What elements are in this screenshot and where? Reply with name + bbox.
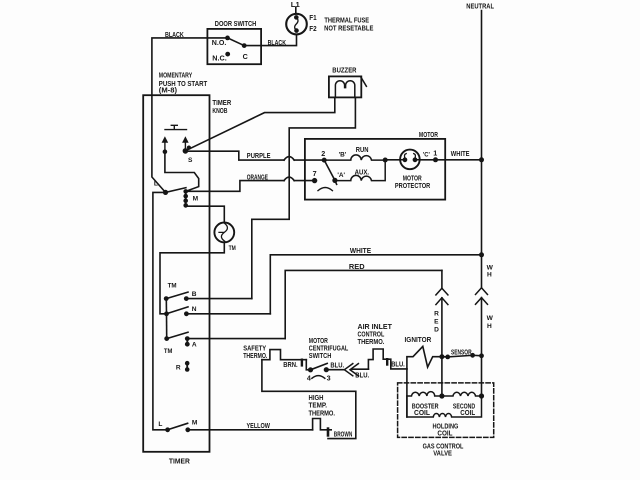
svg-text:E: E bbox=[434, 319, 439, 326]
svg-text:KNOB: KNOB bbox=[212, 106, 227, 115]
timer motor wave symbol bbox=[219, 224, 227, 242]
ignitor element zigzag bbox=[407, 346, 442, 369]
label W H (lower) bbox=[487, 315, 494, 330]
label R E D (vertical) bbox=[434, 311, 439, 334]
aux-side contact dot bbox=[332, 178, 337, 183]
wire: M bottom to timer motor TM bbox=[186, 206, 225, 222]
wire: N fixed to riser bbox=[186, 313, 270, 315]
sensor/neutral junction dot bbox=[479, 353, 484, 358]
plug connector bar (yellow/brown) bbox=[327, 429, 330, 436]
svg-text:S: S bbox=[188, 157, 193, 164]
svg-text:BROWN: BROWN bbox=[334, 430, 353, 439]
wire: TM bottom into timer to N moving contact bbox=[160, 242, 224, 313]
svg-text:L1: L1 bbox=[291, 0, 300, 9]
centrifugal switch arm bbox=[311, 363, 328, 369]
svg-text:3: 3 bbox=[327, 374, 331, 383]
timer contact B fixed dot bbox=[184, 296, 189, 301]
aux winding bbox=[335, 160, 385, 181]
label HIGH TEMP. THERMO. bbox=[309, 393, 336, 417]
svg-text:THERMO.: THERMO. bbox=[243, 351, 267, 360]
timer contact A moving dot bbox=[164, 336, 169, 341]
wire: blu from contact 3 bbox=[326, 369, 343, 371]
sensor element bbox=[448, 355, 473, 357]
svg-text:VALVE: VALVE bbox=[433, 449, 452, 458]
wire: white rail from N riser to neutral bbox=[270, 255, 481, 314]
svg-text:BLU.: BLU. bbox=[391, 359, 405, 368]
wire: drop to centrifugal switch contact 4 bbox=[306, 360, 310, 370]
svg-text:WHITE: WHITE bbox=[451, 149, 470, 158]
wire: blu to air inlet thermo bbox=[352, 368, 368, 370]
gas control valve dashed box bbox=[398, 383, 494, 438]
wire: A fixed to red riser bbox=[190, 338, 286, 340]
ignitor/red junction dot bbox=[439, 354, 444, 359]
svg-text:'B': 'B' bbox=[339, 151, 347, 158]
connector chevrons on red lead bbox=[436, 288, 448, 304]
svg-text:RUN: RUN bbox=[356, 145, 369, 154]
wire: red rail bbox=[285, 270, 442, 338]
wire: white lead into valve bbox=[481, 356, 483, 396]
buzzer striker flag bbox=[361, 77, 367, 87]
buzzer coil bbox=[335, 81, 354, 98]
wire: M stack connector bbox=[185, 191, 187, 205]
wire: timer knob pointer to buzzer feed bbox=[186, 97, 335, 150]
svg-text:ORANGE: ORANGE bbox=[247, 172, 268, 181]
motor protector bimetal marks bbox=[404, 154, 415, 157]
timer contact L bottom arm bbox=[168, 423, 188, 430]
svg-text:2: 2 bbox=[321, 149, 325, 158]
thermal fuse element S-curve bbox=[295, 17, 298, 30]
svg-text:MOTOR: MOTOR bbox=[419, 130, 439, 139]
wire: neutral vertical line bbox=[481, 11, 483, 255]
wire jump: orange over buzzer riser bbox=[284, 177, 294, 181]
motor box bbox=[305, 139, 445, 200]
connector chevrons on blu wire bbox=[344, 364, 358, 376]
door switch C terminal bbox=[242, 43, 247, 48]
junction dot on left arrow wire bbox=[163, 149, 168, 154]
svg-text:L: L bbox=[154, 180, 158, 187]
wire: yellow from timer M contact bbox=[188, 429, 313, 431]
label TIMER KNOB bbox=[212, 98, 231, 115]
wire: A fixed dots connector bbox=[186, 339, 188, 345]
svg-text:DOOR SWITCH: DOOR SWITCH bbox=[215, 19, 256, 28]
wire: B fixed to buzzer riser bbox=[186, 298, 252, 300]
label W H (upper) bbox=[487, 264, 494, 278]
timer motor TM circle bbox=[214, 223, 234, 243]
svg-text:YELLOW: YELLOW bbox=[247, 421, 271, 430]
timer contact L moving dot bbox=[163, 190, 168, 195]
label SAFETY THERMO. bbox=[243, 343, 267, 359]
svg-text:BUZZER: BUZZER bbox=[332, 65, 357, 74]
label BOOSTER COIL bbox=[412, 401, 440, 417]
plug connector bar (brn) bbox=[301, 360, 303, 366]
svg-text:'C': 'C' bbox=[423, 151, 430, 158]
svg-text:'A': 'A' bbox=[337, 172, 345, 179]
wire: protector to terminal 1 bbox=[420, 159, 436, 161]
label MOTOR PROTECTOR bbox=[395, 174, 431, 191]
thermal fuse F1/F2 circle bbox=[286, 14, 307, 35]
wire: motor output white to neutral bbox=[436, 159, 482, 161]
svg-text:SWITCH: SWITCH bbox=[309, 351, 332, 360]
label HOLDING COIL bbox=[433, 421, 459, 437]
wire: junction to motor protector bbox=[385, 159, 400, 161]
sensor right dot bbox=[470, 353, 475, 358]
timer contact A arm bbox=[167, 332, 188, 338]
svg-text:WHITE: WHITE bbox=[350, 246, 371, 255]
svg-text:W: W bbox=[487, 264, 494, 271]
svg-text:THERMO.: THERMO. bbox=[358, 337, 385, 346]
wire: red drop to connector bbox=[441, 270, 443, 288]
run winding bbox=[324, 155, 385, 160]
svg-text:NOT RESETABLE: NOT RESETABLE bbox=[324, 23, 373, 32]
safety thermostat bump bbox=[262, 350, 306, 360]
label GAS CONTROL VALVE bbox=[423, 442, 464, 458]
svg-text:M: M bbox=[192, 420, 198, 427]
timer contact M bottom fixed dot bbox=[185, 427, 190, 432]
plug connector bar (blu/ignitor) bbox=[386, 359, 388, 364]
svg-text:F2: F2 bbox=[309, 24, 316, 33]
svg-text:(M-8): (M-8) bbox=[159, 85, 178, 94]
thermal fuse top terminal dot bbox=[294, 15, 299, 20]
svg-text:M: M bbox=[193, 196, 199, 203]
svg-text:A: A bbox=[192, 341, 197, 348]
push-to-start actuator T bar bbox=[165, 125, 187, 129]
timer contact S dot bbox=[183, 148, 189, 154]
svg-text:BLACK: BLACK bbox=[268, 38, 287, 47]
svg-text:C: C bbox=[243, 52, 248, 61]
wire: orange from M contact to motor terminal 7 bbox=[188, 181, 284, 192]
junction dot on neutral line bbox=[479, 157, 484, 162]
svg-text:H: H bbox=[487, 272, 492, 279]
svg-text:BLU.: BLU. bbox=[355, 370, 369, 379]
wire: brown segment bbox=[262, 360, 356, 439]
junction dot white rail to neutral bbox=[479, 252, 484, 257]
wire: sensor to neutral lead bbox=[473, 354, 482, 357]
motor terminal 1 dot bbox=[433, 157, 438, 162]
svg-text:TM: TM bbox=[168, 283, 177, 290]
wire: blu lead into valve bbox=[406, 369, 408, 417]
svg-text:SENSOR: SENSOR bbox=[451, 347, 472, 356]
high temp thermostat bump bbox=[313, 419, 332, 430]
motor centrifugal actuator arc bbox=[318, 188, 332, 191]
sensor left dot bbox=[445, 355, 450, 360]
svg-text:COIL: COIL bbox=[437, 429, 453, 438]
booster coil bbox=[407, 392, 442, 396]
wire: purple from S to motor terminal 2 bbox=[185, 151, 284, 160]
wire: M fixed feed from push-start junction bbox=[165, 152, 199, 192]
centrifugal actuator arc 4-3 bbox=[312, 376, 325, 379]
timer contact R dots bbox=[185, 361, 190, 372]
motor centrifugal switch arm 2 to aux bbox=[324, 160, 336, 184]
motor terminal 7 bbox=[312, 178, 317, 183]
wire: neutral drop to connector bbox=[481, 255, 483, 288]
label MOTOR CENTRIFUGAL SWITCH bbox=[309, 336, 349, 360]
svg-text:BLACK: BLACK bbox=[165, 30, 184, 39]
door switch arm N.O. to C bbox=[228, 38, 245, 46]
svg-text:1: 1 bbox=[433, 149, 437, 158]
svg-text:TM: TM bbox=[229, 245, 237, 252]
wire jump: purple over buzzer riser bbox=[284, 157, 294, 161]
wire: red lead into valve bbox=[441, 357, 443, 396]
thermal fuse bottom terminal dot bbox=[294, 28, 299, 33]
svg-text:N.C.: N.C. bbox=[212, 54, 227, 63]
timer box outline bbox=[143, 95, 209, 452]
buzzer box bbox=[329, 76, 361, 97]
door switch N.C. terminal bbox=[225, 52, 230, 57]
holding coil on bottom rail bbox=[407, 396, 482, 417]
push-to-start right arrow bbox=[184, 140, 186, 148]
svg-text:PURPLE: PURPLE bbox=[247, 151, 271, 160]
wire: red lead to ignitor junction bbox=[441, 298, 443, 357]
motor terminal 2 bbox=[322, 158, 327, 163]
second coil bbox=[442, 392, 482, 396]
svg-text:BRN.: BRN. bbox=[283, 360, 297, 369]
timer contact S second dot bbox=[187, 146, 191, 150]
svg-text:H: H bbox=[487, 323, 492, 330]
connector chevrons on white lead bbox=[476, 288, 488, 305]
motor protector right contact bbox=[413, 157, 418, 162]
timer contact N moving dot bbox=[164, 311, 169, 316]
svg-text:IGNITOR: IGNITOR bbox=[405, 335, 433, 344]
push-to-start left arrow bbox=[164, 140, 166, 150]
svg-text:W: W bbox=[487, 315, 494, 322]
wire: white lead to sensor bbox=[481, 298, 483, 356]
motor protector terminal stubs bbox=[400, 159, 419, 161]
label SECOND COIL bbox=[453, 401, 476, 417]
timer contact B arm bbox=[166, 292, 188, 299]
svg-text:B: B bbox=[192, 291, 197, 298]
timer contact A fixed dots bbox=[185, 336, 190, 346]
wire: L dot to inner riser down to bottom L contact bbox=[153, 192, 168, 429]
svg-text:N.O.: N.O. bbox=[212, 38, 227, 47]
svg-text:N: N bbox=[192, 306, 197, 313]
run/aux junction dot bbox=[383, 158, 388, 163]
svg-text:L: L bbox=[158, 421, 162, 428]
door switch DS1 box bbox=[207, 29, 261, 64]
svg-text:COIL: COIL bbox=[460, 408, 475, 417]
timer contact L bottom moving dot bbox=[165, 427, 170, 432]
wire: L1 stub above fuse bbox=[295, 7, 297, 14]
timer contact B moving dot bbox=[164, 296, 169, 301]
booster/red junction dot bbox=[439, 393, 444, 398]
svg-text:PROTECTOR: PROTECTOR bbox=[395, 181, 431, 190]
wire: door switch C to thermal fuse bbox=[244, 35, 296, 46]
centrifugal switch contact 4 dot bbox=[308, 367, 313, 372]
svg-text:F1: F1 bbox=[309, 13, 316, 22]
wire: orange continues into motor box bbox=[294, 180, 314, 182]
timer contact L arm bbox=[166, 188, 186, 193]
svg-text:RED: RED bbox=[349, 262, 365, 271]
wire: buzzer to timer contact B riser bbox=[252, 97, 356, 298]
timer contact N arm bbox=[167, 307, 189, 314]
air inlet control thermostat double bump bbox=[368, 349, 407, 369]
motor protector left contact bbox=[403, 157, 408, 162]
wire: N/A moving contacts connector bbox=[166, 314, 168, 339]
label AIR INLET CONTROL THERMO. bbox=[358, 322, 393, 346]
svg-text:COIL: COIL bbox=[414, 408, 431, 417]
timer contact N fixed dot bbox=[184, 311, 189, 316]
wire: R dots connector bbox=[186, 363, 188, 369]
timer contact M stack dots bbox=[183, 189, 188, 208]
centrifugal switch contact 3 dot bbox=[324, 367, 329, 372]
svg-text:TM: TM bbox=[164, 348, 173, 355]
svg-text:4: 4 bbox=[307, 374, 311, 383]
wire: purple continues into motor box bbox=[294, 159, 324, 161]
svg-text:NEUTRAL: NEUTRAL bbox=[466, 1, 494, 10]
svg-text:TIMER: TIMER bbox=[169, 457, 191, 466]
svg-text:THERMO.: THERMO. bbox=[309, 408, 336, 417]
motor protector circle bbox=[400, 150, 420, 170]
svg-text:BLU.: BLU. bbox=[330, 361, 344, 370]
svg-text:R: R bbox=[434, 311, 439, 318]
wire: B/N moving contacts connector bbox=[165, 299, 167, 314]
door switch N.O. terminal bbox=[225, 36, 230, 41]
svg-text:R: R bbox=[176, 364, 181, 371]
label MOMENTARY / PUSH TO START / (M-8) bbox=[159, 70, 208, 94]
second/white junction dot bbox=[479, 393, 484, 398]
svg-text:D: D bbox=[434, 327, 439, 334]
svg-text:7: 7 bbox=[313, 169, 317, 178]
wire: junction to sensor bbox=[442, 356, 448, 358]
wire: BLACK feed from timer to door switch bbox=[152, 38, 228, 193]
